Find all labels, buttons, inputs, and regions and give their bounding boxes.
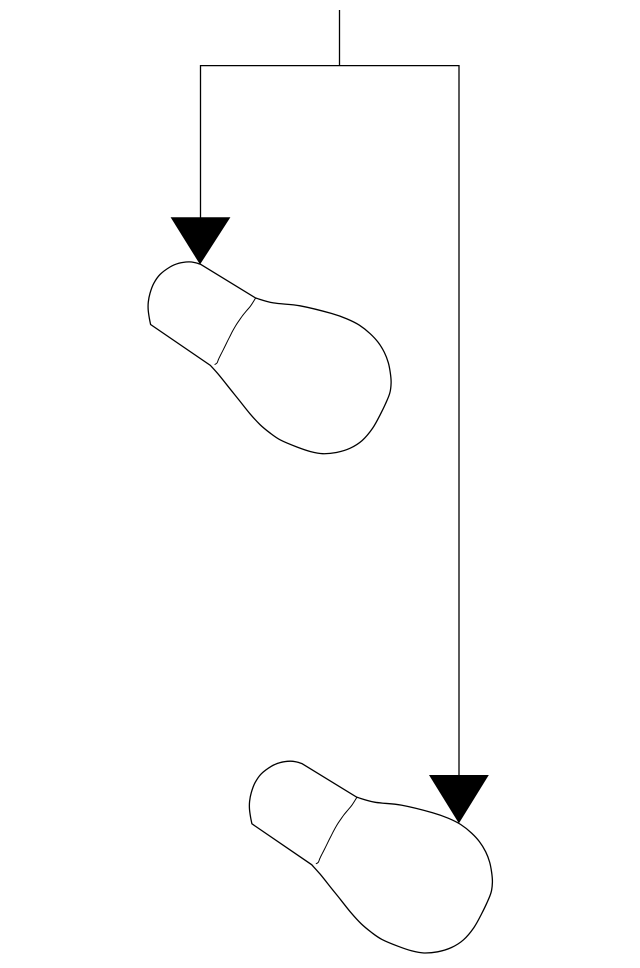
bulb 1 cap/glass junction (215, 298, 256, 365)
bulb 2 (lamp) (249, 761, 492, 953)
bulb 1 (lamp) (148, 262, 391, 454)
bulb 2 cap/glass junction (316, 797, 357, 864)
arrowhead onto bulb 1 (171, 217, 231, 264)
bulb 1 outline (148, 262, 391, 454)
arrowhead onto bulb 2 (429, 775, 489, 823)
wire: horizontal distribution with left and right drops (201, 66, 460, 776)
wire: top feed drop (339, 10, 341, 66)
bulb 2 outline (249, 761, 492, 953)
